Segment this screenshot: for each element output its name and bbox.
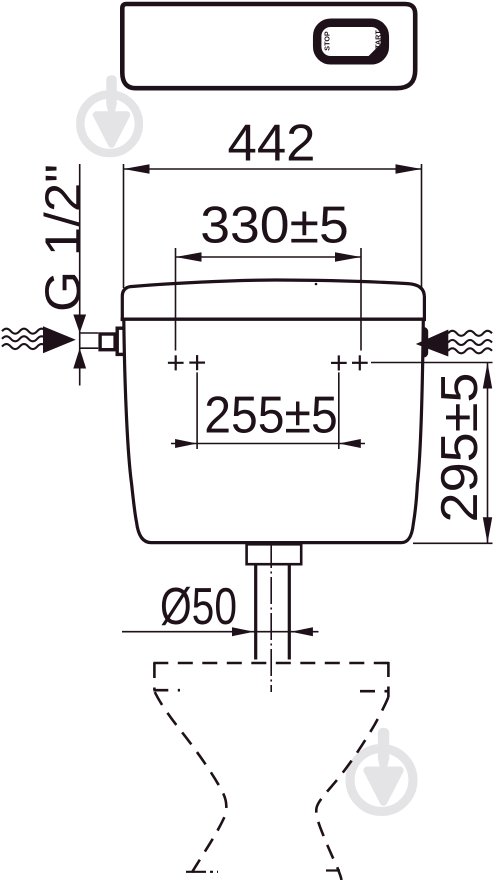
svg-text:295±5: 295±5 xyxy=(431,373,489,523)
svg-text:442: 442 xyxy=(228,115,316,173)
svg-text:255±5: 255±5 xyxy=(204,386,338,444)
svg-text:330±5: 330±5 xyxy=(200,197,349,255)
svg-text:START: START xyxy=(373,30,382,54)
svg-text:Ø50: Ø50 xyxy=(160,578,237,636)
svg-text:G 1/2": G 1/2" xyxy=(35,164,91,312)
svg-text:STOP: STOP xyxy=(322,31,331,51)
